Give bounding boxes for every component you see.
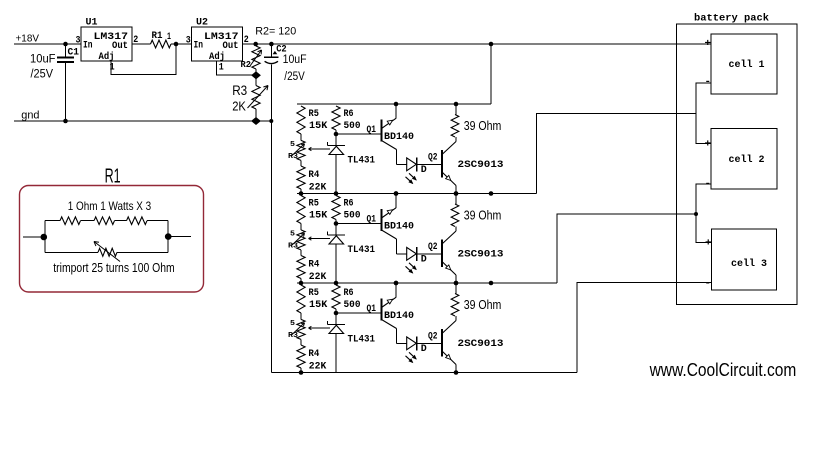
resistor R5 (block 1) [297, 106, 305, 140]
TL431 ref arrow (block 3) [309, 326, 331, 329]
svg-text:BD140: BD140 [384, 131, 414, 143]
label R5 (block 1) [309, 108, 319, 120]
label U2 pin In [194, 40, 204, 52]
label R1 detail title [105, 166, 121, 188]
label 2SC9013 (block 2) [458, 249, 504, 261]
label trimpot R3 (block 1) [288, 153, 299, 161]
node battery junction2 [694, 212, 698, 216]
label trimpot 5 (block 1) [290, 141, 296, 149]
label TL431 (block 1) [348, 155, 376, 167]
label R1 value 1 [167, 32, 171, 43]
svg-text:5: 5 [290, 141, 296, 149]
svg-text:R3: R3 [288, 153, 299, 161]
label R3 [232, 83, 247, 98]
transistor Q2 2SC9013 (block 2) [442, 231, 456, 283]
wire gnd [14, 120, 271, 122]
transistor Q1 BD140 (block 1) [382, 104, 397, 164]
svg-text:Q1: Q1 [367, 124, 377, 136]
wire +18V input [14, 43, 81, 45]
wire U1 out to R1 [132, 43, 151, 45]
label gnd [21, 110, 39, 122]
shunt reference TL431 (block 1) [328, 134, 346, 194]
wire top branch to right [147, 220, 168, 222]
wire between resistors b-c [115, 220, 127, 222]
node Q2 emitter/39Ohm rail (block 1) [454, 191, 459, 196]
svg-text:1: 1 [110, 63, 115, 74]
label BD140 (block 3) [384, 310, 414, 322]
svg-text:22K: 22K [309, 271, 327, 283]
svg-text:D: D [421, 343, 427, 355]
label 22K (block 3) [309, 360, 327, 372]
svg-text:BD140: BD140 [384, 221, 414, 233]
wire return rail vertical [270, 121, 272, 373]
svg-text:battery pack: battery pack [694, 13, 769, 25]
shunt reference TL431 (block 2) [328, 224, 346, 284]
wire R1 detail left vertical [44, 221, 46, 253]
label BD140 (block 2) [384, 221, 414, 233]
LED D (block 3) [397, 337, 443, 363]
wire U2 out [243, 43, 712, 45]
wire block3 to cell3 minus [577, 283, 712, 373]
label R6 (block 2) [344, 198, 354, 210]
svg-text:39 Ohm: 39 Ohm [464, 119, 502, 133]
label www.CoolCircuit.com [649, 360, 797, 380]
svg-text:10uF: 10uF [283, 54, 307, 66]
label U1 pin Adj [99, 51, 115, 63]
label R3 value 2K [232, 99, 246, 114]
label Q1 (block 3) [367, 303, 377, 315]
label +18V [16, 33, 40, 45]
svg-text:R3: R3 [288, 243, 299, 251]
label cell1 minus [705, 76, 712, 88]
svg-text:15K: 15K [309, 120, 328, 132]
resistor R6 (block 2) [332, 196, 340, 224]
trimpot of divider (block 3) [292, 319, 306, 345]
label 500 (block 2) [344, 210, 361, 222]
svg-text:+: + [705, 139, 712, 151]
shunt reference TL431 (block 3) [328, 313, 346, 373]
svg-text:/25V: /25V [284, 71, 305, 83]
svg-text:R1: R1 [105, 166, 121, 188]
node 39Ohm/rail (block 3) [454, 281, 459, 286]
label U1 pin number 3 [76, 35, 81, 46]
cell 1 box [711, 34, 777, 94]
label R2= 120 [255, 26, 296, 38]
wire R1 to U2 [171, 43, 192, 45]
label U1 pin number 2 [133, 35, 138, 46]
svg-text:39 Ohm: 39 Ohm [464, 298, 502, 312]
regulator U1 box [81, 27, 132, 61]
svg-text:In: In [83, 40, 93, 52]
svg-text:R1: R1 [152, 30, 163, 42]
label cell 2 [729, 154, 765, 166]
wire block2 to battery junction2 [557, 214, 696, 283]
svg-text:trimport 25 turns 100 Ohm: trimport 25 turns 100 Ohm [53, 260, 174, 275]
node emitter/rail (block 2) [394, 191, 399, 196]
label R4 (block 2) [308, 259, 319, 271]
label cell3 plus [705, 238, 712, 250]
label U2 LM317 [204, 31, 239, 43]
wire block1 top rail [297, 103, 491, 105]
svg-text:gnd: gnd [21, 110, 39, 122]
node gnd/C1 [63, 119, 68, 124]
label cell 1 [729, 59, 765, 71]
label BD140 (block 1) [384, 131, 414, 143]
battery pack outer box [677, 24, 798, 305]
label cell3 minus [705, 278, 712, 290]
label D (block 3) [421, 343, 427, 355]
svg-text:1 Ohm 1 Watts X 3: 1 Ohm 1 Watts X 3 [68, 199, 152, 213]
label U2 pin number 1 [219, 63, 224, 74]
svg-text:D: D [421, 254, 427, 266]
node R4/rail (block 2) [299, 281, 304, 286]
resistor R5 (block 3) [297, 285, 305, 319]
svg-text:TL431: TL431 [348, 334, 376, 346]
label trimpot R3 (block 2) [288, 243, 299, 251]
label R1 [152, 30, 163, 42]
label U2 pin number 3 [186, 35, 191, 46]
svg-text:5: 5 [290, 231, 296, 239]
svg-text:R6: R6 [344, 198, 354, 210]
label Q2 (block 2) [428, 241, 438, 253]
svg-text:+: + [705, 38, 712, 50]
label trimpot R3 (block 3) [288, 332, 299, 340]
resistor 39 Ohm (block 1) [451, 104, 459, 142]
label 1 Ohm 1 Watts X 3 [68, 199, 152, 213]
wire U2 Adj feedback [217, 61, 253, 75]
label trimpot 5 (block 2) [290, 231, 296, 239]
svg-text:Q1: Q1 [367, 214, 377, 226]
svg-text:C1: C1 [68, 47, 80, 59]
label U1 LM317 [94, 31, 129, 43]
svg-text:cell 2: cell 2 [729, 154, 765, 166]
svg-text:TL431: TL431 [348, 244, 376, 256]
node BD140 emitter column/rail (block 2) [394, 281, 399, 286]
svg-text:1: 1 [167, 32, 171, 43]
svg-text:3: 3 [76, 35, 81, 46]
LED D (block 1) [397, 158, 443, 184]
label D (block 1) [421, 164, 427, 176]
label 15K (block 2) [309, 210, 328, 222]
svg-text:1: 1 [219, 63, 224, 74]
resistor R6 (block 1) [332, 106, 340, 134]
label 15K (block 3) [309, 299, 328, 311]
label Q1 (block 1) [367, 124, 377, 136]
node R1 detail right [165, 233, 172, 240]
svg-text:R4: R4 [308, 348, 319, 360]
label 2SC9013 (block 1) [458, 159, 504, 171]
svg-text:R6: R6 [344, 287, 354, 299]
resistor R6 (block 3) [332, 285, 340, 313]
node main rail to block1 [489, 42, 494, 47]
wire block3 bottom rail [271, 372, 577, 374]
svg-text:cell 1: cell 1 [729, 59, 765, 71]
TL431 ref arrow (block 2) [309, 237, 331, 240]
svg-text:R2= 120: R2= 120 [255, 26, 296, 38]
node R1 detail left [41, 234, 48, 241]
wire R1 detail left lead [23, 236, 45, 238]
svg-text:In: In [194, 40, 204, 52]
label 15K (block 1) [309, 120, 328, 132]
cell 3 box [712, 229, 777, 290]
label U2 [196, 17, 208, 29]
label trimpot 5 (block 3) [290, 320, 296, 328]
node R6/TL431/base (block 2) [334, 221, 339, 226]
svg-text:-: - [705, 76, 712, 88]
wire main rail down to block1 rail [490, 44, 492, 104]
resistor 39 Ohm (block 3) [451, 283, 459, 321]
label R4 (block 1) [308, 169, 319, 181]
node R6/TL431/base (block 1) [334, 132, 339, 137]
svg-text:10uF: 10uF [30, 54, 56, 66]
svg-text:BD140: BD140 [384, 310, 414, 322]
wire block2 bottom rail [297, 282, 557, 284]
node rail stub (block 1) [489, 191, 494, 196]
svg-text:R3: R3 [288, 332, 299, 340]
polarity tick C2 [273, 51, 278, 54]
wire block1 to battery junction1 [537, 114, 697, 194]
wire base line (block 2) [336, 223, 382, 225]
node C2 top [269, 42, 274, 47]
node R1/U2/Adj1 junction [174, 42, 179, 47]
svg-text:500: 500 [344, 120, 361, 132]
label U1 pin Out [112, 40, 128, 52]
node gnd/C2 [269, 119, 273, 123]
rheostat R3 2K [248, 78, 269, 118]
svg-text:R3: R3 [232, 83, 247, 98]
label Q1 (block 2) [367, 214, 377, 226]
label cell2 plus [705, 139, 712, 151]
wire base line (block 1) [336, 133, 382, 135]
label Q2 (block 1) [428, 152, 438, 164]
wire cell2 minus to cell3 plus [696, 184, 711, 243]
svg-text:500: 500 [344, 299, 361, 311]
trimpot of divider (block 1) [292, 140, 306, 166]
label R5 (block 2) [309, 198, 319, 210]
node 39Ohm/rail (block 1) [454, 102, 459, 107]
node R4/rail (block 1) [299, 191, 304, 196]
node R6/TL431/base (block 3) [334, 311, 339, 316]
svg-text:39 Ohm: 39 Ohm [464, 209, 502, 223]
node R4/rail (block 3) [299, 370, 304, 375]
node emitter/rail (block 1) [394, 102, 399, 107]
svg-text:-: - [705, 278, 712, 290]
svg-text:TL431: TL431 [348, 155, 376, 167]
label U1 [86, 17, 98, 29]
resistor R5 (block 2) [297, 196, 305, 230]
node R3 bottom diamond [251, 117, 261, 125]
regulator U2 box [192, 27, 243, 61]
trimpot of divider (block 2) [292, 230, 306, 256]
svg-text:22K: 22K [309, 360, 327, 372]
node C1 tap [63, 42, 68, 47]
cell 2 box [711, 129, 777, 190]
svg-text:Adj: Adj [99, 51, 115, 63]
label 39 Ohm (block 3) [464, 298, 502, 312]
svg-text:Q2: Q2 [428, 152, 438, 164]
label cell 3 [731, 258, 767, 270]
node BD140 emitter column/rail (block 1) [394, 191, 399, 196]
label R5 (block 3) [309, 287, 319, 299]
label C1 value /25V [31, 69, 54, 81]
svg-text:U1: U1 [86, 17, 98, 29]
capacitor C1 [57, 44, 74, 121]
label U2 pin number 2 [244, 35, 249, 46]
label C2 value 10uF [283, 54, 307, 66]
svg-text:R4: R4 [308, 259, 319, 271]
label TL431 (block 2) [348, 244, 376, 256]
svg-text:www.CoolCircuit.com: www.CoolCircuit.com [649, 360, 797, 380]
wire R1 detail top lead-in [45, 220, 60, 222]
svg-text:5: 5 [290, 320, 296, 328]
wire bottom branch left [45, 251, 98, 253]
node U2 Adj/R2/R3 diamond [251, 71, 261, 79]
node TL431 anode/rail (block 1) [334, 191, 339, 196]
node rail stub (block 2) [489, 281, 494, 286]
label 22K (block 1) [309, 181, 327, 193]
trimpot wiper arrow [94, 242, 120, 262]
svg-text:Q2: Q2 [428, 331, 438, 343]
wire base line (block 3) [336, 312, 382, 314]
label C1 value 10uF [30, 54, 56, 66]
wire U1 Adj feedback [111, 44, 176, 74]
TL431 ref arrow (block 1) [309, 147, 331, 150]
label R4 (block 3) [308, 348, 319, 360]
LED D (block 2) [397, 247, 443, 273]
label 39 Ohm (block 1) [464, 119, 502, 133]
svg-text:2SC9013: 2SC9013 [458, 249, 504, 261]
label 500 (block 3) [344, 299, 361, 311]
rheostat R2 [250, 44, 262, 72]
label R6 (block 3) [344, 287, 354, 299]
node R2 top [253, 42, 258, 47]
node 39Ohm/rail (block 2) [454, 191, 459, 196]
svg-text:15K: 15K [309, 299, 328, 311]
wire bottom branch right [117, 251, 168, 253]
label R6 (block 1) [344, 108, 354, 120]
label TL431 (block 3) [348, 334, 376, 346]
svg-text:3: 3 [186, 35, 191, 46]
svg-text:R5: R5 [309, 108, 319, 120]
resistor 1 Ohm (a) [60, 217, 81, 225]
transistor Q2 2SC9013 (block 1) [442, 142, 456, 194]
transistor Q1 BD140 (block 2) [382, 194, 397, 254]
resistor 1 Ohm (b) [94, 217, 115, 225]
svg-text:2SC9013: 2SC9013 [458, 159, 504, 171]
svg-text:/25V: /25V [31, 69, 54, 81]
svg-text:R6: R6 [344, 108, 354, 120]
svg-text:Q1: Q1 [367, 303, 377, 315]
transistor Q2 2SC9013 (block 3) [442, 321, 456, 373]
svg-text:500: 500 [344, 210, 361, 222]
label C2 [276, 44, 287, 56]
label C2 value /25V [284, 71, 305, 83]
resistor R4 (block 2) [297, 256, 305, 284]
svg-text:22K: 22K [309, 181, 327, 193]
red rounded box R1 detail [20, 186, 204, 293]
svg-text:2SC9013: 2SC9013 [458, 338, 504, 350]
svg-text:U2: U2 [196, 17, 208, 29]
svg-text:Q2: Q2 [428, 241, 438, 253]
label cell2 minus [705, 178, 712, 190]
node emitter/rail (block 3) [394, 281, 399, 286]
label 39 Ohm (block 2) [464, 209, 502, 223]
capacitor C2 [264, 44, 279, 121]
svg-text:+: + [705, 238, 712, 250]
svg-text:R5: R5 [309, 198, 319, 210]
svg-text:cell 3: cell 3 [731, 258, 767, 270]
svg-text:R4: R4 [308, 169, 319, 181]
resistor 1 Ohm (c) [127, 217, 148, 225]
svg-text:2K: 2K [232, 99, 246, 114]
svg-text:D: D [421, 164, 427, 176]
node Q2 emitter/rail (block 3) [454, 370, 459, 375]
svg-text:R2: R2 [241, 59, 252, 70]
resistor R4 (block 3) [297, 345, 305, 373]
node TL431 anode/rail (block 2) [334, 281, 339, 286]
label cell1 plus [705, 38, 712, 50]
wire between resistors a-b [81, 220, 95, 222]
label battery pack [694, 13, 769, 25]
node Q2 emitter/39Ohm rail (block 2) [454, 281, 459, 286]
wire block1 bottom rail [297, 193, 537, 195]
label R2 designator [241, 59, 252, 70]
svg-text:15K: 15K [309, 210, 328, 222]
wire cell1 minus to cell2 plus [696, 83, 711, 144]
resistor R1 [151, 40, 172, 48]
label Q2 (block 3) [428, 331, 438, 343]
label 22K (block 2) [309, 271, 327, 283]
label trimport 25 turns 100 Ohm [53, 260, 174, 275]
resistor R4 (block 1) [297, 166, 305, 194]
label U1 pin number 1 [110, 63, 115, 74]
svg-text:+18V: +18V [16, 33, 40, 45]
trimpot 100 Ohm [98, 248, 117, 256]
transistor Q1 BD140 (block 3) [382, 283, 397, 343]
label C1 [68, 47, 80, 59]
label U2 pin Out [223, 40, 239, 52]
wire R1 detail right vertical [167, 221, 169, 253]
label D (block 2) [421, 254, 427, 266]
resistor 39 Ohm (block 2) [451, 194, 459, 232]
label 500 (block 1) [344, 120, 361, 132]
wire R1 detail right lead [168, 236, 191, 238]
label U1 pin In [83, 40, 93, 52]
label U2 pin Adj [209, 51, 225, 63]
svg-text:R5: R5 [309, 287, 319, 299]
label 2SC9013 (block 3) [458, 338, 504, 350]
